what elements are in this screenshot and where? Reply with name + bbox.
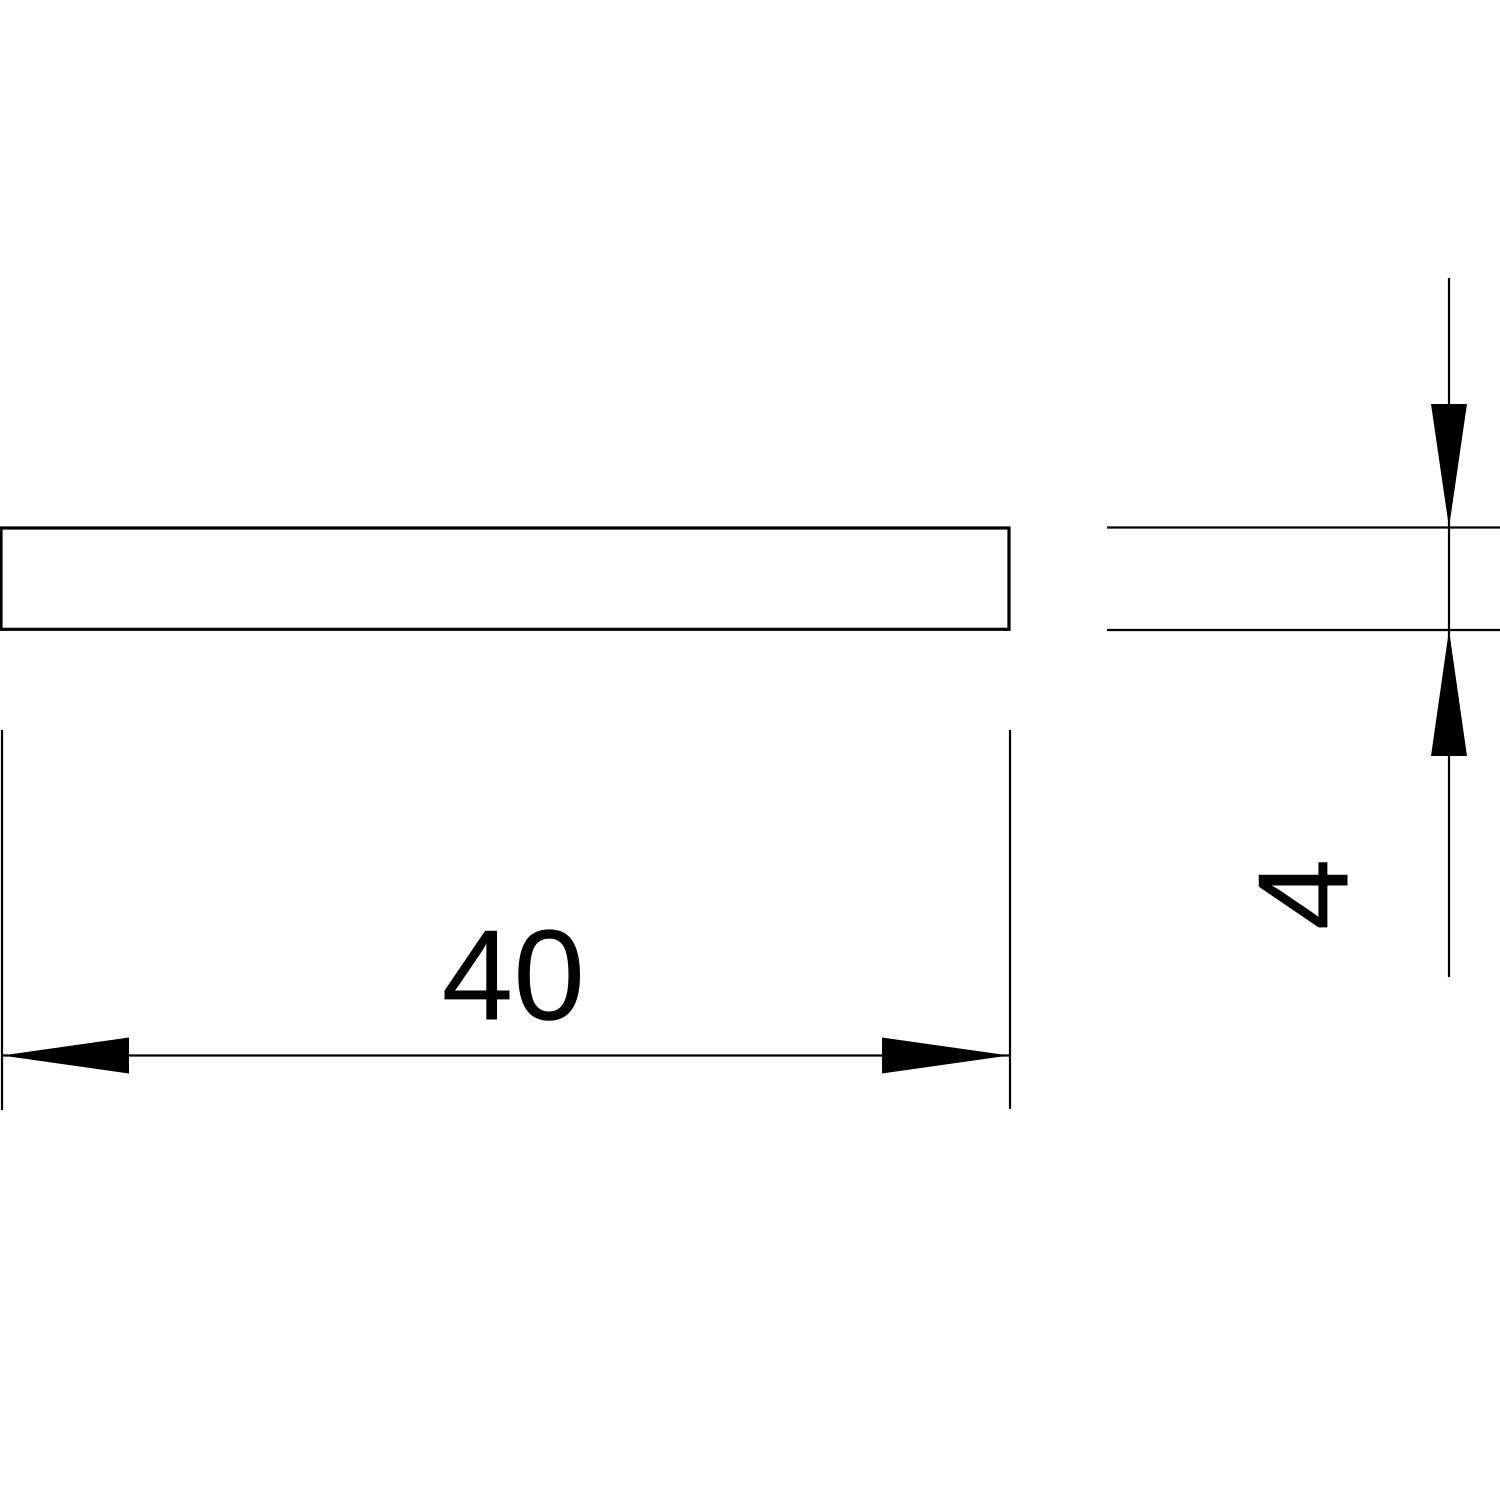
svg-text:40: 40	[442, 904, 586, 1048]
svg-text:4: 4	[1232, 859, 1376, 931]
